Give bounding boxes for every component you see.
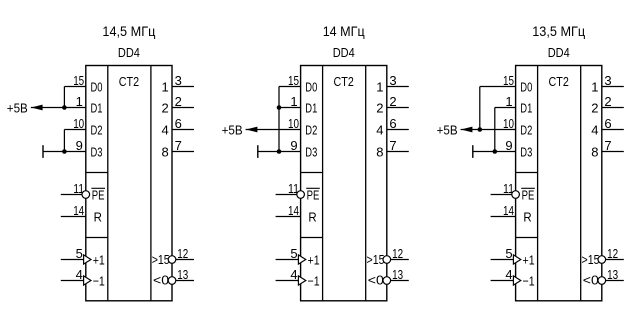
svg-text:D1: D1: [91, 101, 103, 116]
DD4 left field separator: [537, 66, 539, 301]
svg-text:13,5 МГц: 13,5 МГц: [532, 23, 585, 39]
svg-text:14,5 МГц: 14,5 МГц: [102, 23, 155, 39]
svg-text:<0: <0: [368, 273, 384, 288]
wire: pin 6 stub: [602, 129, 624, 131]
wire: pin 12 stub: [606, 259, 624, 261]
svg-text:<0: <0: [153, 273, 169, 288]
DD4 left field separator: [107, 66, 109, 301]
PE inversion bubble (pin 11): [512, 191, 520, 199]
wire: D1 stub: [279, 107, 301, 109]
svg-text:2: 2: [175, 94, 182, 109]
svg-text:DD4: DD4: [333, 45, 355, 60]
svg-text:+1: +1: [523, 253, 535, 268]
+5V arrow head: [461, 127, 473, 133]
svg-text:15: 15: [503, 73, 514, 88]
wire: pin 5 stub: [61, 259, 84, 261]
svg-text:13: 13: [392, 267, 403, 282]
wire: +5V feed: [461, 129, 516, 131]
svg-text:4: 4: [591, 123, 598, 138]
wire: pin 3 stub: [387, 86, 409, 88]
svg-text:12: 12: [177, 246, 188, 261]
svg-text:>15: >15: [582, 252, 600, 267]
DD4 left field divider (between D3 and PE): [516, 172, 538, 174]
wire: pin 3 stub: [602, 86, 624, 88]
wire: D1 stub: [495, 107, 516, 109]
svg-text:DD4: DD4: [118, 45, 140, 60]
svg-text:D1: D1: [520, 101, 532, 116]
wire: pin 6 stub: [387, 129, 409, 131]
svg-text:<0: <0: [583, 273, 599, 288]
svg-text:2: 2: [376, 101, 383, 116]
wire: D2 stub: [64, 129, 85, 131]
wire: pin 13 stub: [606, 280, 624, 282]
wire: pin 14 stub: [276, 216, 301, 218]
dynamic input triangle -1 (pin 4): [513, 276, 520, 285]
svg-text:10: 10: [503, 116, 514, 131]
svg-text:D0: D0: [305, 80, 317, 95]
svg-text:14 МГц: 14 МГц: [323, 23, 365, 39]
svg-text:7: 7: [604, 138, 611, 153]
junction dot: [277, 105, 282, 110]
wire: D0 stub: [279, 86, 301, 88]
junction dot: [277, 149, 282, 154]
svg-text:CT2: CT2: [549, 75, 569, 89]
svg-text:4: 4: [162, 123, 169, 138]
wire: pin 12 stub: [176, 259, 194, 261]
svg-text:10: 10: [73, 116, 84, 131]
wire: pin 11 stub: [61, 194, 82, 196]
dynamic input triangle +1 (pin 5): [513, 255, 520, 264]
svg-text:D3: D3: [305, 145, 317, 160]
svg-text:12: 12: [607, 246, 618, 261]
DD4 left field separator: [322, 66, 324, 301]
wire: pin 2 stub: [387, 107, 409, 109]
svg-text:D3: D3: [520, 145, 532, 160]
svg-text:R: R: [308, 210, 316, 225]
svg-text:D0: D0: [520, 80, 532, 95]
counter DD4 body outline: [301, 66, 387, 301]
svg-text:+5В: +5В: [7, 101, 28, 116]
DD4 left field divider (between D3 and PE): [301, 172, 323, 174]
svg-text:CT2: CT2: [334, 75, 354, 89]
junction dot: [62, 105, 67, 110]
svg-text:+1: +1: [93, 253, 105, 268]
wire: pin 13 stub: [176, 280, 194, 282]
svg-text:6: 6: [604, 116, 611, 131]
logic-0 (common) bar: [42, 145, 44, 158]
dynamic input triangle -1 (pin 4): [298, 276, 305, 285]
DD4 left field divider (between R and +1): [86, 237, 108, 239]
counter DD4 body outline: [86, 66, 172, 301]
wire: vertical link x=-21.4: [63, 130, 65, 152]
svg-text:3: 3: [604, 73, 611, 88]
svg-text:10: 10: [288, 116, 299, 131]
svg-text:13: 13: [607, 267, 618, 282]
svg-text:6: 6: [389, 116, 396, 131]
svg-text:D1: D1: [305, 101, 317, 116]
svg-text:14: 14: [288, 203, 299, 218]
svg-text:−1: −1: [523, 274, 535, 289]
wire: pin 12 stub: [391, 259, 409, 261]
wire: pin 11 stub: [276, 194, 297, 196]
svg-text:15: 15: [288, 73, 299, 88]
inversion bubble pin 13: [168, 277, 176, 285]
wire: pin 2 stub: [172, 107, 194, 109]
svg-text:CT2: CT2: [119, 75, 139, 89]
junction dot: [478, 127, 483, 132]
PE inversion bubble (pin 11): [82, 191, 90, 199]
svg-text:8: 8: [162, 145, 169, 160]
svg-text:4: 4: [76, 267, 83, 282]
+5V arrow head: [246, 127, 258, 133]
dynamic input triangle -1 (pin 4): [84, 276, 91, 285]
svg-text:5: 5: [290, 246, 297, 261]
wire: pin 3 stub: [172, 86, 194, 88]
wire: pin 14 stub: [61, 216, 86, 218]
svg-text:2: 2: [591, 101, 598, 116]
svg-text:1: 1: [591, 80, 598, 95]
svg-text:7: 7: [389, 138, 396, 153]
wire: pin 6 stub: [172, 129, 194, 131]
DD4 right field separator: [150, 66, 152, 301]
svg-text:9: 9: [505, 138, 512, 153]
wire: D3 to logic-0 bar: [258, 151, 301, 153]
inversion bubble pin 12: [383, 256, 391, 264]
inversion bubble pin 13: [598, 277, 606, 285]
DD4 left field divider (between D3 and PE): [86, 172, 108, 174]
dynamic input triangle +1 (pin 5): [84, 255, 91, 264]
svg-text:1: 1: [505, 94, 512, 109]
inversion bubble pin 12: [168, 256, 176, 264]
svg-text:+5В: +5В: [222, 123, 243, 138]
svg-text:8: 8: [591, 145, 598, 160]
DD4 left field divider (between R and +1): [516, 237, 538, 239]
logic-0 (common) bar: [257, 145, 259, 158]
svg-text:R: R: [94, 210, 102, 225]
wire: D0 stub: [480, 86, 516, 88]
svg-text:−1: −1: [93, 274, 105, 289]
svg-text:D0: D0: [91, 80, 103, 95]
wire: pin 4 stub: [276, 280, 299, 282]
svg-text:5: 5: [505, 246, 512, 261]
wire: vertical link x=-20.8: [494, 108, 496, 152]
dynamic input triangle +1 (pin 5): [298, 255, 305, 264]
wire: pin 5 stub: [276, 259, 299, 261]
svg-text:DD4: DD4: [548, 45, 570, 60]
logic-0 (common) bar: [472, 145, 474, 158]
svg-text:D3: D3: [91, 145, 103, 160]
svg-text:6: 6: [175, 116, 182, 131]
svg-text:+5В: +5В: [437, 123, 458, 138]
wire: pin 4 stub: [491, 280, 514, 282]
svg-text:12: 12: [392, 246, 403, 261]
svg-text:>15: >15: [152, 252, 170, 267]
wire: D3 to logic-0 bar: [43, 151, 86, 153]
svg-text:5: 5: [76, 246, 83, 261]
PE overline: [306, 187, 320, 189]
wire: +5V feed: [31, 107, 86, 109]
svg-text:PE: PE: [522, 188, 535, 203]
wire: pin 4 stub: [61, 280, 84, 282]
wire: pin 7 stub: [387, 151, 409, 153]
svg-text:9: 9: [76, 138, 83, 153]
svg-text:1: 1: [76, 94, 83, 109]
junction dot: [62, 149, 67, 154]
+5V arrow head: [31, 105, 43, 111]
wire: pin 5 stub: [491, 259, 514, 261]
svg-text:4: 4: [505, 267, 512, 282]
svg-text:>15: >15: [367, 252, 385, 267]
svg-text:2: 2: [604, 94, 611, 109]
svg-text:8: 8: [376, 145, 383, 160]
junction dot: [493, 149, 498, 154]
svg-text:15: 15: [73, 73, 84, 88]
svg-text:−1: −1: [308, 274, 320, 289]
svg-text:1: 1: [376, 80, 383, 95]
svg-text:14: 14: [73, 203, 84, 218]
wire: D0 stub: [64, 86, 85, 88]
svg-text:D2: D2: [91, 123, 103, 138]
inversion bubble pin 13: [383, 277, 391, 285]
svg-text:PE: PE: [92, 188, 105, 203]
PE overline: [521, 187, 535, 189]
wire: pin 14 stub: [491, 216, 516, 218]
wire: D3 to logic-0 bar: [473, 151, 516, 153]
svg-text:1: 1: [162, 80, 169, 95]
svg-text:R: R: [523, 210, 531, 225]
inversion bubble pin 12: [598, 256, 606, 264]
DD4 right field separator: [365, 66, 367, 301]
svg-text:4: 4: [290, 267, 297, 282]
wire: +5V feed: [246, 129, 301, 131]
wire: pin 7 stub: [172, 151, 194, 153]
DD4 right field separator: [580, 66, 582, 301]
svg-text:3: 3: [389, 73, 396, 88]
wire: pin 7 stub: [602, 151, 624, 153]
DD4 left field divider (between R and +1): [301, 237, 323, 239]
svg-text:2: 2: [162, 101, 169, 116]
wire: pin 11 stub: [491, 194, 512, 196]
svg-text:13: 13: [177, 267, 188, 282]
svg-text:2: 2: [389, 94, 396, 109]
svg-text:4: 4: [376, 123, 383, 138]
svg-text:+1: +1: [308, 253, 320, 268]
svg-text:1: 1: [290, 94, 297, 109]
wire: vertical link x=-21.6: [278, 87, 280, 152]
svg-text:PE: PE: [307, 188, 320, 203]
svg-text:14: 14: [503, 203, 514, 218]
svg-text:D2: D2: [520, 123, 532, 138]
svg-text:3: 3: [175, 73, 182, 88]
svg-text:D2: D2: [305, 123, 317, 138]
svg-text:9: 9: [290, 138, 297, 153]
wire: pin 13 stub: [391, 280, 409, 282]
PE overline: [91, 187, 105, 189]
counter DD4 body outline: [516, 66, 602, 301]
svg-text:7: 7: [175, 138, 182, 153]
PE inversion bubble (pin 11): [297, 191, 305, 199]
wire: pin 2 stub: [602, 107, 624, 109]
wire: vertical link x=-21.4: [63, 87, 65, 108]
wire: vertical link x=-35.8: [479, 87, 481, 130]
